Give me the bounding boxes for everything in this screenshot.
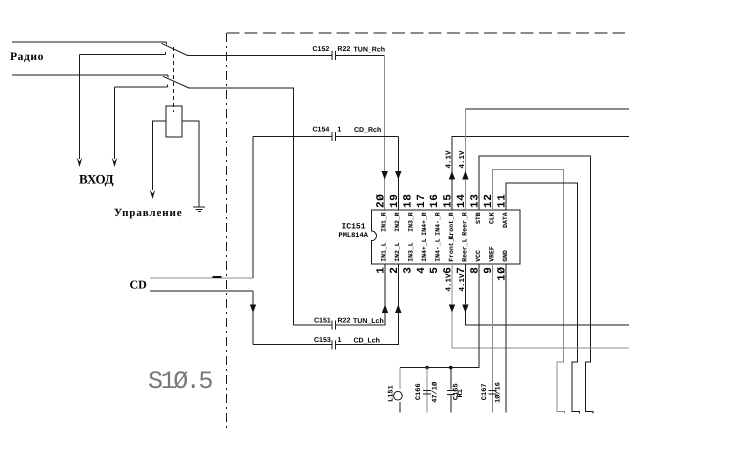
svg-text:47/1Ø: 47/1Ø — [430, 381, 439, 403]
capacitor C167 — [488, 389, 496, 391]
svg-text:1: 1 — [337, 127, 341, 134]
arrow pin6 down — [449, 305, 455, 313]
svg-text:TUN_Rch: TUN_Rch — [354, 46, 386, 54]
wire pin15 4.1V riser — [452, 137, 629, 211]
svg-text:9: 9 — [483, 267, 495, 274]
wire pin6 run — [452, 264, 629, 348]
wire pin20 drop — [384, 56, 386, 211]
svg-text:4.1V: 4.1V — [446, 150, 454, 169]
svg-text:ВХОД: ВХОД — [79, 172, 114, 187]
svg-text:IN4-_L: IN4-_L — [435, 238, 442, 262]
wire radio upper line — [12, 41, 167, 43]
arrow pin14 up — [462, 171, 468, 180]
arrow pin19 down — [395, 171, 401, 180]
svg-text:1: 1 — [375, 267, 387, 274]
arrow pin15 up — [449, 171, 455, 180]
capacitor C166 — [426, 368, 428, 413]
svg-text:18: 18 — [402, 194, 414, 208]
dashed border vertical — [225, 33, 227, 431]
wire vhod drop 1 — [79, 55, 81, 160]
arrow pin1 up — [382, 305, 388, 314]
op-amp IC151 body — [372, 210, 521, 264]
svg-text:IN4+_R: IN4+_R — [421, 212, 428, 236]
svg-text:6: 6 — [443, 267, 455, 274]
svg-text:Управление: Управление — [114, 207, 183, 219]
wire CD lower — [150, 290, 253, 292]
svg-text:C153: C153 — [314, 337, 331, 344]
arrow pin7 down — [462, 305, 468, 313]
svg-text:VCC: VCC — [475, 250, 482, 262]
wire DATA pin11 — [506, 183, 580, 413]
svg-text:R1: R1 — [457, 389, 465, 397]
wire radio lower line — [12, 74, 168, 76]
capacitor C165 — [450, 368, 452, 390]
svg-text:VREF: VREF — [488, 246, 495, 262]
svg-text:1Ø/16: 1Ø/16 — [494, 382, 503, 403]
svg-text:IN3_R: IN3_R — [408, 212, 415, 232]
svg-text:C151: C151 — [314, 318, 331, 325]
svg-text:R22: R22 — [338, 318, 351, 325]
svg-text:DATA: DATA — [502, 212, 509, 228]
svg-text:STB: STB — [475, 212, 482, 224]
wire CD upper — [150, 277, 253, 279]
arrow CD down — [250, 305, 256, 314]
wire CD lower dropper — [252, 291, 254, 345]
svg-text:C154: C154 — [313, 127, 330, 134]
arrow pin2 up — [395, 305, 401, 314]
svg-text:IN4-_R: IN4-_R — [435, 212, 442, 236]
wire STB pin13 — [479, 156, 593, 413]
wire vhod line 2 horizontal — [115, 86, 168, 88]
svg-text:IN3_L: IN3_L — [408, 242, 415, 262]
wire TUN_Lch feed — [188, 88, 332, 325]
svg-text:2: 2 — [389, 267, 401, 274]
inductor L151 — [399, 368, 401, 389]
wire switch linkage dashed — [173, 47, 175, 112]
svg-text:13: 13 — [470, 194, 482, 208]
svg-text:S1Ø.5: S1Ø.5 — [148, 367, 212, 396]
wire CD_Rch right — [336, 136, 399, 138]
svg-text:TUN_Lch: TUN_Lch — [353, 317, 384, 325]
svg-text:Front_L: Front_L — [448, 234, 455, 261]
wire relay left — [153, 121, 167, 190]
svg-text:PML814A: PML814A — [339, 232, 369, 240]
dashed border horizontal — [226, 32, 625, 34]
wire TUN_Rch left — [188, 55, 333, 57]
svg-text:8: 8 — [470, 267, 482, 274]
wire pin14 top run — [465, 108, 628, 110]
svg-text:11: 11 — [497, 194, 509, 208]
svg-text:19: 19 — [389, 194, 401, 208]
wire TUN_Rch right — [336, 55, 385, 57]
svg-text:L151: L151 — [387, 385, 395, 402]
wire relay right — [182, 121, 199, 207]
junction blob on CD upper wire — [213, 276, 222, 278]
svg-text:4.1V: 4.1V — [459, 150, 467, 169]
switch S2 fixed contact tick lower — [167, 84, 169, 87]
svg-text:17: 17 — [416, 194, 428, 208]
capacitor C154 — [332, 132, 336, 141]
svg-text:CD_Rch: CD_Rch — [354, 126, 381, 134]
svg-text:1Ø: 1Ø — [497, 267, 509, 281]
svg-text:4.1V: 4.1V — [459, 273, 467, 292]
wire CD_Rch left — [253, 136, 332, 138]
svg-text:IN2_R: IN2_R — [394, 212, 401, 232]
node junction dot C166 — [425, 366, 429, 370]
svg-text:C166: C166 — [415, 383, 423, 400]
svg-text:IC151: IC151 — [342, 223, 366, 232]
svg-text:IN1_R: IN1_R — [381, 212, 388, 232]
svg-text:7: 7 — [456, 267, 468, 274]
svg-text:12: 12 — [483, 194, 495, 208]
wire pin7 run — [465, 264, 628, 325]
svg-text:4.1V: 4.1V — [446, 273, 454, 292]
svg-text:CD: CD — [130, 278, 148, 292]
svg-text:3: 3 — [402, 267, 414, 274]
svg-text:15: 15 — [443, 194, 455, 208]
ground — [193, 207, 205, 212]
svg-text:C152: C152 — [313, 46, 330, 53]
svg-text:5: 5 — [429, 267, 441, 274]
svg-text:Reer_L: Reer_L — [461, 238, 468, 262]
arrow vhod 1 — [77, 158, 83, 168]
svg-text:16: 16 — [429, 194, 441, 208]
wire CD upper riser — [252, 137, 254, 279]
arrow control — [150, 190, 156, 200]
svg-text:GND: GND — [502, 250, 509, 262]
wire GND pin10 drop — [505, 264, 507, 413]
svg-text:4: 4 — [416, 267, 428, 274]
wire pin19 drop — [397, 137, 399, 211]
svg-text:Радио: Радио — [10, 51, 44, 63]
capacitor C151 — [332, 321, 336, 330]
wire pin14 4.1V riser — [464, 109, 466, 210]
svg-text:C167: C167 — [481, 383, 489, 400]
switch S1 fixed contact tick upper — [166, 42, 168, 45]
switch S2 lever — [163, 76, 189, 88]
svg-text:CLK: CLK — [488, 212, 495, 224]
wire VCC pin8 rail — [400, 264, 479, 368]
capacitor C153 — [332, 340, 336, 349]
svg-text:Reer_R: Reer_R — [461, 212, 468, 236]
wire TUN_Lch right — [336, 264, 386, 325]
svg-text:2Ø: 2Ø — [375, 194, 387, 208]
arrow pin20 down — [382, 171, 388, 180]
svg-text:1: 1 — [338, 337, 342, 344]
node junction dot C165 — [449, 366, 453, 370]
switch S1 lever — [162, 43, 188, 55]
svg-text:IN1_L: IN1_L — [381, 242, 388, 262]
svg-text:R22: R22 — [337, 46, 350, 53]
svg-text:CD_Lch: CD_Lch — [354, 337, 380, 345]
svg-text:IN2_L: IN2_L — [394, 242, 401, 262]
wire CD_Lch left — [253, 344, 332, 346]
relay K1 box — [166, 106, 182, 137]
switch S2 fixed contact tick upper — [167, 75, 169, 78]
svg-text:14: 14 — [456, 194, 468, 208]
capacitor C152 — [332, 51, 336, 60]
wire VREF pin9 drop — [491, 264, 493, 413]
wire CD_Lch right — [336, 264, 399, 345]
arrow vhod 2 — [112, 158, 118, 168]
switch S1 fixed contact tick lower — [165, 52, 167, 55]
wire CLK pin12 — [492, 170, 564, 414]
wire vhod line 1 horizontal — [80, 54, 166, 56]
svg-text:IN4+_L: IN4+_L — [421, 238, 428, 262]
wire vhod drop 2 — [114, 87, 116, 159]
